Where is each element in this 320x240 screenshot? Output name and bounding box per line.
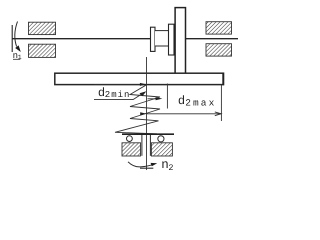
roller hub sleeve lines <box>155 31 169 46</box>
bearing ball left <box>126 136 132 142</box>
roller hub left flange <box>151 27 156 51</box>
rotation arrow n1 <box>15 22 21 53</box>
rotation arrow n2 <box>128 162 157 167</box>
svg-text:2max: 2max <box>185 97 216 108</box>
centerline vertical shaft 2 axis <box>146 57 148 170</box>
label n1 <box>13 51 22 61</box>
shaft 2 rod right side <box>149 135 151 156</box>
spring seat plate <box>122 133 174 135</box>
disc 2 right edge thick <box>222 73 224 86</box>
support block right (hatched) <box>151 143 172 156</box>
d2max dimension line with arrows <box>140 112 221 116</box>
spring (compression, zigzag) <box>115 85 160 134</box>
bearing right upper (hatched) <box>206 22 232 34</box>
svg-text:d: d <box>178 94 185 108</box>
shaft 2 bottom end tick <box>140 167 153 169</box>
support block left (hatched) <box>122 143 141 156</box>
friction roller disc (edge view) <box>175 8 185 75</box>
roller hub right flange <box>169 24 175 55</box>
label d2max <box>178 94 217 109</box>
node: left shaft end tick <box>11 25 13 52</box>
wire: horizontal shaft 1 <box>12 38 238 40</box>
svg-text:2min: 2min <box>105 90 131 100</box>
bearing ball right <box>158 136 164 142</box>
svg-text:2: 2 <box>168 163 173 173</box>
disc 2 plate (edge view) <box>55 73 224 84</box>
bearing left lower (hatched) <box>29 44 56 57</box>
label n2 <box>161 158 173 173</box>
bearing left upper (hatched) <box>29 22 56 34</box>
d2min dimension arrow on plate lower edge <box>94 83 147 86</box>
extension line min radius <box>166 84 168 109</box>
label d2min <box>98 86 131 100</box>
shaft 2 rod left side <box>141 135 143 156</box>
d2min underline leader <box>94 91 146 99</box>
small arrow to min radius <box>148 97 163 100</box>
extension line max radius <box>220 85 222 122</box>
bearing right lower (hatched) <box>206 44 232 56</box>
svg-text:1: 1 <box>18 54 22 61</box>
